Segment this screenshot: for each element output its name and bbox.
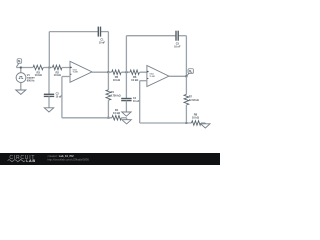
svg-text:10 nF: 10 nF: [174, 45, 181, 48]
svg-text:10 kΩ: 10 kΩ: [54, 73, 62, 77]
svg-text:22.03 kΩ: 22.03 kΩ: [189, 99, 199, 102]
svg-text:10 kΩ: 10 kΩ: [131, 78, 139, 82]
svg-text:LAB: LAB: [26, 159, 35, 163]
svg-text:10 uF: 10 uF: [56, 96, 63, 99]
svg-text:http://circuitlab.com/c/29kq6z: http://circuitlab.com/c/29kq6zf3895: [48, 157, 90, 161]
svg-text:2.756 kΩ: 2.756 kΩ: [111, 95, 121, 98]
svg-text:10 kΩ: 10 kΩ: [192, 115, 200, 119]
svg-text:10 kΩ: 10 kΩ: [113, 111, 121, 115]
svg-text:10 kΩ: 10 kΩ: [35, 73, 43, 77]
svg-text:600 Hz: 600 Hz: [27, 80, 35, 83]
svg-text:10 kΩ: 10 kΩ: [113, 78, 121, 82]
svg-text:TL081: TL081: [149, 76, 156, 78]
svg-text:10 nF: 10 nF: [99, 41, 106, 44]
svg-text:TL081: TL081: [73, 72, 80, 74]
svg-text:10 uF: 10 uF: [133, 100, 140, 103]
